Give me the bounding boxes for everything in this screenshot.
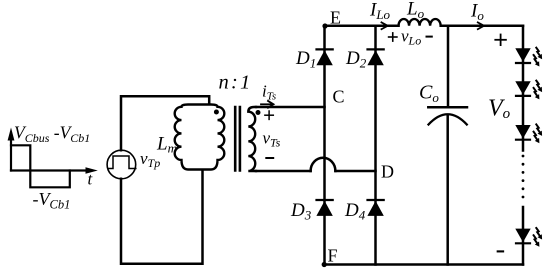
inductor Lo <box>399 19 441 26</box>
top wire E to Lo <box>325 25 399 28</box>
waveform square wave trace <box>11 145 70 187</box>
label + (vTs) <box>265 111 273 119</box>
diode D2 <box>367 49 383 65</box>
LED4 <box>515 229 530 244</box>
label + (output) <box>495 35 506 46</box>
waveform inset horizontal axis (t axis) <box>11 167 98 173</box>
svg-text:n:1: n:1 <box>219 72 253 94</box>
capacitor Co curved bottom plate <box>429 114 467 124</box>
LED1 <box>515 48 530 63</box>
transformer secondary winding <box>248 107 256 171</box>
node F junction dot <box>322 262 327 267</box>
LED3 <box>515 125 530 140</box>
source square-wave glyph <box>109 156 136 169</box>
LED string lower rail <box>522 207 525 265</box>
diode D3 <box>316 200 332 216</box>
capacitor Co branch wire lower <box>446 115 449 265</box>
label - (vLo) <box>427 36 432 38</box>
svg-text:D: D <box>381 162 394 182</box>
wire source top to primary <box>121 96 209 150</box>
iTs arrow <box>261 101 274 108</box>
LED4 emission arrows <box>534 228 543 247</box>
wire secondary bottom to hump <box>256 170 311 173</box>
secondary polarity dot <box>256 110 261 115</box>
transformer core lines <box>234 107 237 171</box>
label + (vLo) <box>389 33 397 41</box>
svg-text:E: E <box>330 8 341 28</box>
wire crossing hump over left rail <box>311 158 336 171</box>
transformer primary winding Lm <box>175 105 225 170</box>
diode D1 <box>316 49 332 65</box>
LED2 emission arrows <box>534 81 543 100</box>
capacitor Co branch wire upper <box>447 26 450 108</box>
wire secondary top to node C <box>256 106 325 109</box>
LED1 emission arrows <box>534 48 543 67</box>
label - (output) <box>498 250 503 252</box>
capacitor Co top plate <box>428 106 467 109</box>
bridge left rail E-C-F <box>323 26 326 265</box>
diode D4 <box>367 200 383 216</box>
top wire Lo to corner <box>441 25 523 28</box>
node E junction dot <box>322 23 327 28</box>
source vTp circle <box>107 150 136 179</box>
bottom wire F to LED string <box>324 263 523 266</box>
dotted continuation of LED string <box>522 155 525 199</box>
LED2 <box>515 81 530 96</box>
ILo arrow <box>382 22 388 29</box>
primary polarity dot <box>214 110 219 115</box>
svg-text:F: F <box>328 246 338 266</box>
wire source bottom to primary <box>121 170 203 264</box>
right corner wire down to LED string <box>522 26 525 151</box>
waveform inset vertical axis <box>8 128 15 171</box>
Io arrow <box>478 22 484 29</box>
label - (vTs) <box>266 157 273 159</box>
LED3 emission arrows <box>534 124 543 143</box>
bridge right rail <box>374 26 377 265</box>
wire hump to node D <box>335 170 375 173</box>
svg-text:C: C <box>333 87 345 107</box>
